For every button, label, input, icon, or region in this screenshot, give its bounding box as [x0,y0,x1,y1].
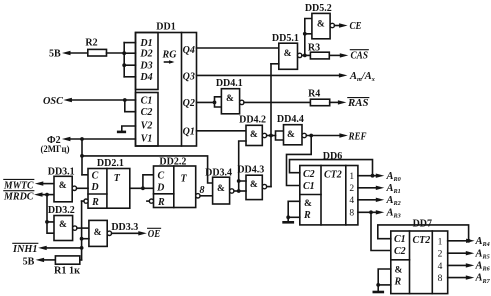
wire DD6 out8 [358,211,377,213]
flipflop DD2.1 box [88,169,130,209]
svg-text:Q2: Q2 [183,98,195,109]
wire MRDC down to DD3.2 [47,195,54,234]
junction F2 long branch [80,154,84,158]
junction out1 feedback [371,174,375,178]
arrow AR6 [466,263,475,267]
D input bus vertical [123,43,125,77]
svg-text:&: & [287,130,295,140]
wire F2 to V1 [70,138,136,140]
wire Q3 to AT/AX [197,74,341,76]
svg-text:DD1: DD1 [156,22,175,33]
svg-text:5В: 5В [23,257,35,268]
svg-text:DD4.1: DD4.1 [216,78,243,89]
svg-text:R: R [91,197,99,208]
junction DD2.1 out [141,186,145,190]
svg-text:&: & [304,199,312,209]
wire into DD2.1 C [82,174,88,176]
svg-text:R: R [394,276,402,287]
wire INH1 to reset net [46,247,81,249]
junction DD3.4 out lower [237,189,241,193]
wire DD3.2 out to DD3.3 [77,227,89,229]
junction MRDC branch [45,193,49,197]
svg-text:DD3.1: DD3.1 [48,167,75,178]
flipflop DD2.2 box [154,166,196,208]
svg-text:R1 1к: R1 1к [54,265,80,276]
svg-text:AR6: AR6 [475,261,491,273]
counter DD6 box [300,166,358,225]
gate DD4.4 box [284,125,303,145]
gate DD4.2 box [246,125,262,145]
svg-text:C2: C2 [141,107,153,118]
svg-text:DD2.1: DD2.1 [97,158,124,169]
resistor R1 [55,256,79,264]
svg-text:D3: D3 [139,61,152,72]
wire DD4.1 out to R4 [244,101,310,103]
DD2.2 R stub [147,200,149,202]
svg-text:T: T [114,173,121,184]
arrow INH1 [38,246,47,250]
svg-text:C2: C2 [303,169,315,180]
DD4.3 output bubble [262,184,266,188]
junction out8 to DD7 [369,210,373,214]
wire Q1 to DD4.2 [197,130,247,132]
DD2.2 R input bubble [149,199,153,203]
svg-text:T: T [180,174,187,185]
register U DD1 box [136,33,197,147]
wire DD4.2 out to node [267,135,276,137]
gate DD3.2 box [54,216,73,241]
vertical net DD5.1 to DD4.2/DD4.3 outputs [270,64,272,187]
junction on vertical net [269,134,273,138]
wire DD2.1 out to DD2.2 [130,187,154,189]
label CAS with overline [350,50,368,62]
svg-text:DD4.3: DD4.3 [237,165,264,176]
svg-text:2: 2 [438,250,443,260]
arrow AR0 [376,174,385,178]
svg-text:Q1: Q1 [183,127,195,138]
wire 5V to R1 [44,259,56,261]
svg-text:DD3.2: DD3.2 [48,205,75,216]
svg-text:AR4: AR4 [475,236,490,248]
svg-text:AR0: AR0 [386,171,401,183]
wire DD6 out2 [358,187,377,189]
DD4.1 tied input wires [215,97,222,107]
svg-text:8: 8 [438,274,443,284]
arrow AR1 [376,186,385,190]
svg-text:&: & [250,180,258,190]
arrow to 5V top [62,51,71,55]
DD3.1 output bubble [72,186,76,190]
arrow AR4 [466,239,475,243]
arrow CE [339,23,348,27]
junction DD7 R tap [376,283,380,287]
junction OSC branch [123,98,127,102]
svg-text:AR7: AR7 [475,273,491,285]
gate DD5.2 box [312,13,330,38]
svg-text:DD3.4: DD3.4 [205,167,232,178]
wire DD4.4 out to REF [306,135,340,137]
svg-text:CT2: CT2 [413,235,431,246]
junction reset to DD3.3 [80,237,84,241]
svg-text:DD3.3: DD3.3 [111,222,138,233]
arrow AT/AX [339,73,348,77]
DD7 enable input to ground [378,269,391,291]
svg-text:CE: CE [350,21,362,32]
arrow MWTC [35,181,44,185]
DD2.2 output bubble [196,194,200,198]
DD5.2 tied input wires [305,19,312,56]
DD6 R wire [288,216,300,218]
svg-text:5В: 5В [49,49,61,60]
junction on D bus at D3 [122,63,126,67]
gate DD5.1 box [279,43,298,69]
wire F2 long run to DD3.4 [82,156,213,183]
svg-text:MRDC: MRDC [3,192,34,203]
svg-text:8: 8 [349,209,354,219]
wire OSC to C1 [71,99,135,101]
svg-text:OE: OE [148,229,161,240]
wire R3 to CAS [329,54,341,56]
wire DD6 out8 down to DD7 C2 [371,212,391,250]
wire DD7 out4 [448,264,467,266]
svg-text:C: C [92,171,99,182]
junction DD4.1 input tie [213,101,217,105]
junction F2 branch [80,137,84,141]
svg-text:Q4: Q4 [183,45,195,56]
wire R1 to reset net [80,259,82,261]
label OE with overline [148,228,161,240]
svg-text:&: & [59,220,67,230]
svg-text:OSC: OSC [43,96,64,107]
resistor R4 [310,99,329,106]
ground DD7 [374,291,383,294]
resistor R2 [88,49,107,56]
DD3.2 output bubble [73,226,77,230]
DD7 R wire [378,284,391,286]
svg-text:8: 8 [200,185,205,196]
DD6 enable input to ground [288,201,300,221]
DD4.4 tied input wires [276,131,284,140]
DD5.2 output bubble [330,23,334,27]
counter DD7 box [391,231,448,294]
wire MWTC to DD3.1 [43,183,54,185]
gate DD4.3 box [246,175,262,199]
wire stub D1 [124,42,135,44]
svg-text:DD2.2: DD2.2 [159,157,186,168]
junction DD3.4 out upper [237,179,241,183]
wire DD7 out1 [448,240,469,242]
svg-text:4: 4 [349,196,354,206]
svg-text:&: & [94,228,102,238]
svg-text:R2: R2 [85,38,97,49]
wire DD5.2 out to CE [335,25,341,27]
wire DD4.4 out down to DD6 C1 [287,136,312,186]
svg-text:CT2: CT2 [324,170,342,181]
svg-text:R3: R3 [308,43,320,54]
junction reset to INH1 [80,246,84,250]
svg-text:REF: REF [348,131,367,142]
label MWTC with overline [3,179,34,191]
svg-text:DD4.4: DD4.4 [277,114,304,125]
wire DD3.3 out to OE [112,232,140,234]
DD5.1 lower input stub [271,63,279,65]
junction DD3.2 upper input [45,220,49,224]
arrow AR3 [376,210,385,214]
svg-text:D2: D2 [139,49,152,60]
wire DD7 out2 [448,252,467,254]
svg-text:DD4.2: DD4.2 [239,115,266,126]
svg-text:Aт/Aх: Aт/Aх [349,71,375,83]
label AT/AX [349,71,375,83]
svg-text:RAS: RAS [347,98,369,109]
arrow CAS [340,53,349,57]
junction DD5.2 tap [303,54,307,58]
svg-text:V2: V2 [141,121,153,132]
DD3.3 lower input from reset net [82,238,89,240]
svg-text:AR1: AR1 [386,183,401,195]
svg-text:&: & [226,94,234,104]
wire Q4 to DD5.1 [197,47,279,49]
svg-text:C1: C1 [303,181,315,192]
label INH1 with overline [12,243,38,255]
junction DD5.2 lower input [303,32,307,36]
pulse edge symbol at V2 [118,126,135,132]
svg-text:(2МГц): (2МГц) [41,144,70,154]
wire DD3.1 out to DD2.1 D [77,187,88,189]
svg-text:1: 1 [349,172,354,182]
svg-text:D: D [90,182,98,193]
junction on D bus at D2 [122,51,126,55]
svg-text:V1: V1 [141,133,153,144]
gate DD3.4 box [213,177,230,204]
arrow RAS [338,100,347,104]
svg-text:Q3: Q3 [183,72,195,83]
resistor R3 [310,52,329,59]
svg-text:&: & [59,181,67,191]
wire R4 to RAS [330,101,339,103]
svg-text:CAS: CAS [351,50,369,61]
label MRDC with overline [3,191,34,203]
arrow AR7 [466,275,475,279]
junction DD6 R tap [286,215,290,219]
svg-text:4: 4 [438,262,443,272]
arrow REF [339,133,348,137]
arrow MRDC [34,192,43,196]
svg-text:C1: C1 [394,234,406,245]
svg-text:DD5.2: DD5.2 [305,3,332,14]
gate DD4.1 box [221,89,239,114]
arrow to F2 [62,137,71,141]
gate DD3.1 box [54,176,72,202]
wire DD2.2 out to DD3.4 [200,195,213,197]
svg-text:&: & [284,49,292,59]
svg-text:C2: C2 [394,246,406,257]
svg-text:&: & [217,184,225,194]
svg-text:D1: D1 [139,38,152,49]
arrow to 5V bottom [36,258,45,262]
gate DD3.3 box [89,220,107,246]
DD4.1 output bubble [240,100,244,104]
svg-text:&: & [317,20,325,30]
vertical DD3.4 out to DD4.2 input [239,141,246,191]
DD4.2 output bubble [262,133,266,137]
wire MRDC to DD3.1 [42,194,54,196]
svg-text:DD5.1: DD5.1 [272,33,299,44]
svg-text:AR5: AR5 [475,248,490,260]
svg-text:INH1: INH1 [12,244,37,255]
feedback out1 to C1 [378,225,469,241]
wire DD5.1 out to R3 [302,54,311,56]
wire DD6 out4 [358,199,377,201]
svg-text:R4: R4 [308,89,320,100]
svg-text:C1: C1 [141,95,153,106]
wire stub D2 [124,52,135,54]
reset net vertical [81,201,83,260]
DD3.3 output bubble [107,231,111,235]
wire branch to C2 [125,100,136,112]
DD2.1 R input bubble [84,199,88,203]
wire branch to DD2.2 C [143,175,154,189]
feedback out1 to C2 [290,160,373,176]
wire DD4.3 out up to node [267,186,271,188]
wire 5V to R2 [70,52,88,54]
DD2.1 R wire to reset net [82,200,84,202]
junction REF branch [309,134,313,138]
arrow AR2 [376,198,385,202]
svg-text:AR3: AR3 [386,207,401,219]
ground DD6 [284,221,293,224]
wire DD7 out8 [448,277,467,279]
wire stub D4 [124,76,135,78]
svg-text:C: C [157,171,164,182]
svg-text:MWTC: MWTC [3,180,34,191]
svg-text:R: R [303,210,311,221]
svg-text:2: 2 [349,184,354,194]
svg-text:D: D [156,183,164,194]
arrow OE [138,231,147,235]
wire DD3.4 out to DD4.3 [234,190,246,192]
wire stub D3 [124,64,135,66]
DD1 RG arrow [165,60,175,64]
svg-text:R: R [157,197,165,208]
DD5.1 output bubble [298,53,302,57]
DD3.4 output bubble [230,189,234,193]
svg-text:D4: D4 [139,72,152,83]
wire F2 down to DD2.1 C [81,139,83,175]
wire Q2 to DD4.1 [197,101,215,103]
wire R2 to D bus [107,52,125,54]
wire DD6 out1 [358,175,377,177]
junction out1 feedback [467,239,471,243]
svg-text:&: & [250,130,258,140]
svg-text:1: 1 [438,237,443,247]
DD1 RG function label [162,50,178,61]
svg-text:AR2: AR2 [386,195,401,207]
label RAS with overline [347,98,369,110]
DD4.4 output bubble [302,133,306,137]
arrow AR5 [466,251,475,255]
svg-text:RG: RG [162,50,178,61]
svg-text:&: & [395,265,403,275]
arrow to OSC [63,98,72,102]
